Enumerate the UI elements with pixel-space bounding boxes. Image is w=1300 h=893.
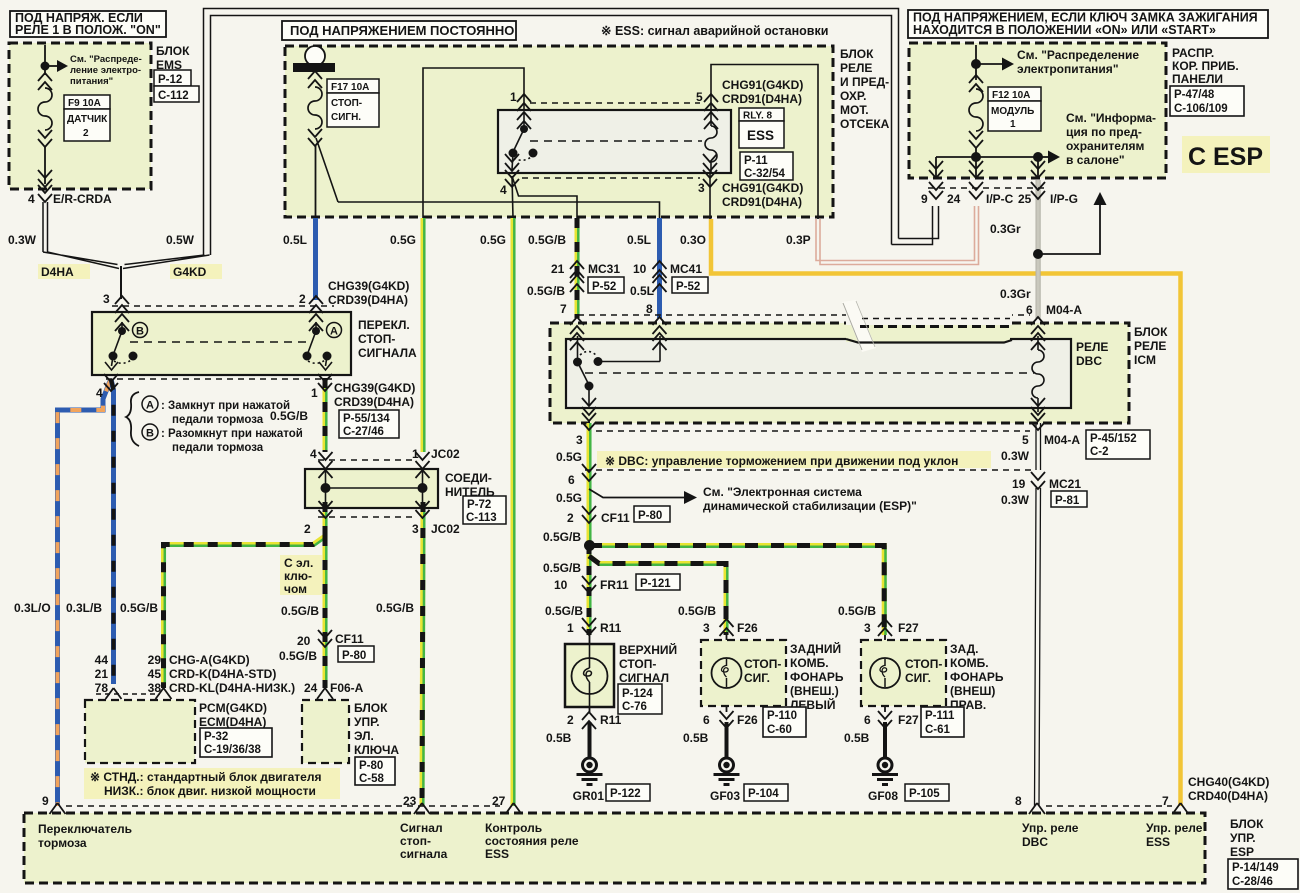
svg-text:JC02: JC02 [431,447,460,461]
svg-text:0.5G: 0.5G [480,233,506,247]
wire merge Y D4HA G4KD [43,252,210,299]
wire branch to fuse info arrow [1038,204,1100,254]
lamp U1 high mount stop box [565,642,677,707]
svg-text:0.3P: 0.3P [786,233,811,247]
svg-text:F26: F26 [737,621,758,635]
JC02 internal link [321,470,428,507]
wire 0.3W DBC pin5 via MC21 to ESP pin 8 [1035,423,1041,806]
svg-text:0.5G: 0.5G [390,233,416,247]
svg-text:2: 2 [299,292,306,306]
svg-text:0.3O: 0.3O [680,233,706,247]
svg-text:CRD-KL(D4HA-НИЗК.): CRD-KL(D4HA-НИЗК.) [169,681,295,695]
svg-text:БЛОК: БЛОК [354,701,388,715]
svg-text:23: 23 [403,794,417,808]
svg-text:R11: R11 [600,713,622,727]
svg-text:КОР. ПРИБ.: КОР. ПРИБ. [1172,59,1239,73]
smart key unit dashed box БЛОК УПР. ЭЛ. КЛЮЧА [302,700,399,763]
ESP pin 27 [492,794,522,814]
JC02 thin dashed connector line bottom [318,516,414,518]
ESP pin 23 [403,794,430,814]
relay name box RLY. 8 ESS [739,108,784,148]
lamp U1 bulb [572,644,608,707]
svg-text:0.5G/B: 0.5G/B [120,601,158,615]
wire 0.3O relay ESS pin3 to ESP pin 7 [711,219,1181,806]
svg-text:PCM(G4KD): PCM(G4KD) [199,701,267,715]
svg-text:МОТ.: МОТ. [840,103,869,117]
ESP pin 7 [1162,794,1189,814]
wire label 0.5G/B lamp3 [838,604,876,618]
svg-text:P-80: P-80 [638,510,662,522]
svg-text:CRD-K(D4HA-STD): CRD-K(D4HA-STD) [169,667,276,681]
svg-text:4: 4 [310,447,317,461]
svg-text:CHG-A(G4KD): CHG-A(G4KD) [169,653,250,667]
wire ESS pin1 to 0.5G column [423,68,524,218]
svg-text:D4HA: D4HA [41,265,74,279]
svg-text:6: 6 [864,713,871,727]
svg-text:4: 4 [28,192,35,206]
svg-text:M04-A: M04-A [1044,433,1080,447]
svg-text:БЛОК: БЛОК [1134,325,1168,339]
svg-text:C-28/46: C-28/46 [1232,876,1273,888]
wire 0.5G/B junction to high stop lamp R11 [589,545,590,635]
connector CF11 pin 20 [297,630,374,662]
wire label 0.5G/B above junction [543,530,581,544]
svg-text:И ПРЕД-: И ПРЕД- [840,75,889,89]
svg-text:Упр. реле: Упр. реле [1146,821,1203,835]
ref box P-14/149 C-28/46 [1228,859,1298,889]
svg-text:сигнала: сигнала [400,847,448,861]
svg-text:ICM: ICM [1134,353,1156,367]
svg-text:CF11: CF11 [601,511,630,525]
svg-text:C-19/36/38: C-19/36/38 [204,744,262,756]
PCM pin numbers 44 21 78 [95,653,109,695]
svg-text:19: 19 [1012,477,1026,491]
svg-text:СИГ.: СИГ. [905,671,931,685]
svg-text:F17 10A: F17 10A [331,82,369,93]
label CHG91 CRD91 bottom [722,181,803,209]
svg-text:20: 20 [297,634,311,648]
svg-text:Переключатель: Переключатель [38,822,132,836]
fuse F9 10A symbol [38,73,52,184]
bottom thin dashed connector line left [66,805,500,807]
svg-text:НИЗК.: блок двиг. низкой мощно: НИЗК.: блок двиг. низкой мощности [104,784,316,798]
JC02 pin 1 [412,447,460,478]
wire 0.5G/B JC02 pin2 down, branch to ECM and smart key block [164,502,327,688]
label CHG39 CRD39 pin2 [328,279,409,307]
DBC pin3 column label 0.5G [556,450,582,464]
wire labels row 0.5L 0.5G 0.5G 0.5GB 0.5L 0.3O 0.3P [283,233,811,247]
svg-text:электропитания": электропитания" [1017,62,1119,76]
node D4HA [38,264,90,279]
svg-text:РАСПР.: РАСПР. [1172,46,1214,60]
switch thin dashed connector line top [112,305,334,307]
scan tear artifact [842,300,1012,352]
svg-text:ПЕРЕКЛ.: ПЕРЕКЛ. [358,318,410,332]
svg-text:См. "Электронная система: См. "Электронная система [703,485,862,499]
wire label 0.5G/B MC31 [527,284,565,298]
EMS feed wire and junction dot [41,45,69,75]
bottom thin dashed connector line right [1046,805,1172,807]
switch pin 4 [96,374,118,400]
svg-text:F12 10A: F12 10A [992,90,1030,101]
svg-text:ЗАДНИЙ: ЗАДНИЙ [790,641,841,656]
svg-text:СТОП-: СТОП- [744,657,781,671]
svg-text:1: 1 [1010,119,1016,130]
wire label 0.3Gr lower [1000,287,1031,301]
ESP pin 9 [42,794,66,814]
svg-text:7: 7 [560,302,567,316]
svg-text:Контроль: Контроль [485,821,542,835]
svg-text:P-81: P-81 [1055,495,1080,507]
svg-text:P-47/48: P-47/48 [1174,89,1215,101]
svg-text:MC41: MC41 [670,262,702,276]
svg-text:1: 1 [567,621,574,635]
switch contact A [303,322,333,370]
JC02 pin 3 [412,501,460,536]
svg-text:питания": питания" [70,76,113,87]
svg-text:КЛЮЧА: КЛЮЧА [354,743,399,757]
svg-text:ESS: ESS [1146,835,1170,849]
svg-text:педали тормоза: педали тормоза [172,414,264,426]
svg-text:24: 24 [304,681,318,695]
svg-text:G4KD: G4KD [173,265,207,279]
svg-text:0.3Gr: 0.3Gr [1000,287,1031,301]
svg-text:P-105: P-105 [909,788,940,800]
svg-text:охранителям: охранителям [1066,139,1145,153]
svg-text:СИГНАЛ: СИГНАЛ [619,671,669,685]
svg-text:0.5L: 0.5L [630,284,654,298]
svg-text:0.5G/B: 0.5G/B [281,604,319,618]
connector MC21 [1012,472,1087,507]
svg-text:В: В [136,326,144,338]
svg-text:C-60: C-60 [767,724,792,736]
svg-text:CRD39(D4HA): CRD39(D4HA) [334,395,414,409]
wire label 0.3W DBC5 [1001,449,1030,463]
svg-text:клю-: клю- [284,569,312,583]
connector MC41 [633,261,708,293]
svg-text:29: 29 [148,653,162,667]
svg-text:См. "Распреде-: См. "Распреде- [70,54,142,65]
svg-text:3: 3 [864,621,871,635]
svg-text:РЕЛЕ: РЕЛЕ [1134,339,1166,353]
label Контроль состояния реле ESS [485,821,579,861]
switch pin 2 [299,292,323,331]
wire label 0.3W MC21 [1001,493,1030,507]
labels CHG-A CRD-K CRD-KL [169,653,295,695]
svg-text:(ВНЕШ.): (ВНЕШ.) [790,684,839,698]
svg-text:CRD39(D4HA): CRD39(D4HA) [328,293,408,307]
svg-text:3: 3 [576,433,583,447]
svg-text:СИГ.: СИГ. [744,671,770,685]
svg-text:P-14/149: P-14/149 [1232,862,1279,874]
svg-text:0.5G/B: 0.5G/B [527,284,565,298]
wire label 0.5B lamp1 [546,731,572,745]
caption box top-right ignition [908,10,1268,38]
svg-text:8: 8 [1015,794,1022,808]
svg-text:А: А [146,400,154,412]
svg-text:P-122: P-122 [610,788,641,800]
ESS relay pin 5 [696,90,718,129]
svg-text:0.5G/B: 0.5G/B [376,601,414,615]
label Переключатель тормоза [38,822,132,850]
DBC pin 3 [576,398,596,447]
ref box P-55/134 C-27/46 [339,410,399,438]
junction dot 0.3Gr [1033,249,1043,259]
caption box top-left "ПОД НАПРЯЖ. ЕСЛИ РЕЛЕ 1 В ПОЛОЖ. ON" [10,11,166,37]
svg-text:P-121: P-121 [640,578,671,590]
svg-text:6: 6 [568,473,575,487]
svg-text:СТОП-: СТОП- [619,657,656,671]
ICM relay block dashed box [550,323,1168,423]
svg-text:0.3L/B: 0.3L/B [66,601,102,615]
svg-text:P-111: P-111 [925,710,955,722]
ESS relay inner box [498,110,731,173]
caption box "ПОД НАПРЯЖЕНИЕМ ПОСТОЯННО" [282,21,516,40]
svg-text:ОХР.: ОХР. [840,89,866,103]
node G4KD [170,264,222,279]
ESP pin 8 [1015,794,1045,814]
DBC relay contact [573,336,660,406]
svg-text:3: 3 [103,292,110,306]
wire 0.5G/B JC02 pin3 to ESP pin 23 [422,502,424,806]
lamp left rear bulb [712,658,742,688]
svg-text:2: 2 [567,511,574,525]
svg-text:P-104: P-104 [748,788,779,800]
svg-text:С ESP: С ESP [1188,143,1263,171]
wire label 0.5G/B below junction [543,561,581,575]
svg-text:24: 24 [947,192,961,206]
switch contact B [105,322,138,370]
wire 0.5L fuse F17 to switch pin 2 [313,218,318,300]
PCM pin fork right [156,688,172,699]
ref box P-47/48 C-106/109 [1170,86,1244,116]
svg-text:P-11: P-11 [744,155,768,167]
svg-text:БЛОК: БЛОК [840,47,874,61]
svg-text:P-80: P-80 [342,650,366,662]
svg-text:P-80: P-80 [359,760,383,772]
svg-text:25: 25 [1018,192,1032,206]
svg-text:C-76: C-76 [622,701,647,713]
svg-text:3: 3 [698,181,705,195]
svg-text:0.3W: 0.3W [1001,493,1030,507]
note Электронная система ESP [703,485,917,513]
svg-text:состояния реле: состояния реле [485,834,579,848]
svg-text:0.5B: 0.5B [844,731,870,745]
svg-text:0.5G/B: 0.5G/B [838,604,876,618]
svg-text:БЛОК: БЛОК [1230,817,1264,831]
svg-text:CRD91(D4HA): CRD91(D4HA) [722,195,802,209]
svg-text:СИГНАЛА: СИГНАЛА [358,346,417,360]
svg-text:0.3W: 0.3W [8,233,37,247]
ESS relay coil [705,110,717,173]
svg-text:: Замкнут при нажатой: : Замкнут при нажатой [161,400,290,412]
svg-text:1: 1 [311,386,318,400]
wire lamp2 internal and 0.5B to ground GF03 [726,635,728,757]
DBC relay internal dashed line [585,372,1034,374]
connector FR11 pin 10 [554,574,680,593]
fuse F17 label box СТОП-СИГН [327,79,379,127]
svg-text:CHG91(G4KD): CHG91(G4KD) [722,78,803,92]
connector F26 pin 6 [703,711,758,728]
pin 6 mid connector [568,464,596,487]
ICM thin dashed connector line top [578,314,1030,316]
label БЛОК РЕЛЕ И ПРЕД-ОХР. МОТ. ОТСЕКА [840,47,890,131]
svg-text:10: 10 [554,578,568,592]
svg-text:УПР.: УПР. [1230,831,1256,845]
svg-text:в салоне": в салоне" [1066,153,1125,167]
wire 0.5L fuse F17 via MC41 to DBC pin 8 [657,218,662,318]
wire 0.5G relay ESS pin4 to ESP pin 27 [513,218,514,806]
svg-text:0.5G: 0.5G [556,491,582,505]
instrument panel junction dashed box top-right [909,43,1166,178]
wire label 0.5G/B pin1 [270,409,308,423]
svg-text:※ ESS: сигнал аварийной остано: ※ ESS: сигнал аварийной остановки [601,24,828,38]
svg-text:P-45/152: P-45/152 [1090,433,1137,445]
wire ESS pin5 to 0.3P column [711,65,818,220]
svg-text:RLY. 8: RLY. 8 [743,111,773,122]
note Распределение электропитания EMS [70,54,142,87]
wire 0.5G DBC pin3 to CF11 junction [589,423,590,545]
svg-text:РЕЛЕ: РЕЛЕ [840,61,872,75]
connector JC02 box СОЕДИНИТЕЛЬ [305,469,495,508]
fuse F17 10A symbol [308,71,338,218]
svg-text:чом: чом [284,582,307,596]
lamp left rear dashed box [701,640,786,706]
svg-text:C-113: C-113 [466,512,497,524]
svg-text:CHG40(G4KD): CHG40(G4KD) [1188,775,1269,789]
wire label 0.5G/B key column lower [279,649,317,663]
wire label 0.5B lamp2 [683,731,709,745]
ref box C-112 [154,86,199,102]
ref box P-11 C-32/54 [740,152,793,180]
svg-text:MC31: MC31 [588,262,620,276]
svg-text:E/R-CRDA: E/R-CRDA [53,192,112,206]
PCM thin dashed connector line [96,693,160,695]
connector F26 pin 3 [703,619,758,636]
svg-text:0.5G/B: 0.5G/B [279,649,317,663]
svg-text:0.5G/B: 0.5G/B [543,530,581,544]
I/P thin dashed connector line [928,187,1045,189]
svg-text:СТОП-: СТОП- [331,98,362,109]
svg-text:GF08: GF08 [868,789,898,803]
svg-text:МОДУЛЬ: МОДУЛЬ [991,106,1034,117]
svg-text:I/P-G: I/P-G [1050,192,1078,206]
svg-text:FR11: FR11 [600,578,629,592]
svg-text:ПАНЕЛИ: ПАНЕЛИ [1172,72,1223,86]
note brace A B pedal [126,392,303,454]
svg-text:ПОД НАПРЯЖЕНИЕМ ПОСТОЯННО: ПОД НАПРЯЖЕНИЕМ ПОСТОЯННО [290,23,514,38]
wire label 0.5G/B key column upper [281,604,319,618]
arrow up to fuse box [1094,192,1107,205]
svg-text:P-52: P-52 [592,281,616,293]
svg-text:F27: F27 [898,713,919,727]
ref box P-72 C-113 [463,496,506,524]
wire 0.5G/B switch pin1 to JC02 pin 4 [325,378,326,452]
svg-text:27: 27 [492,794,506,808]
svg-text:C-61: C-61 [925,724,951,736]
svg-text:ция по пред-: ция по пред- [1066,125,1142,139]
ref box P-80 C-58 [355,757,395,785]
svg-text:ЭЛ.: ЭЛ. [354,729,374,743]
svg-text:0.5G/B: 0.5G/B [543,561,581,575]
svg-text:F27: F27 [898,621,919,635]
switch pin 3 [103,292,129,331]
wire 0.3W from EMS pin 4 [43,202,48,252]
note Информация по предохранителям [1066,111,1156,167]
svg-text:педали тормоза: педали тормоза [172,442,264,454]
svg-text:См. "Информа-: См. "Информа- [1066,111,1156,125]
I/P internal distribution wire [936,151,1060,178]
ESS relay pin 3 [698,154,717,195]
wire label 0.5G/B lamp1 [545,604,583,618]
JC02 pin 4 [310,447,333,478]
label ЗАДНИЙ КОМБ ФОНАРЬ ЛЕВЫЙ [790,641,844,712]
svg-text:C-2: C-2 [1090,446,1109,458]
svg-text:5: 5 [1022,433,1029,447]
svg-text:F9 10A: F9 10A [68,98,101,109]
svg-text:78: 78 [95,681,109,695]
label CHG40 CRD40 [1188,775,1269,803]
ref box P-110 C-60 [763,707,806,737]
svg-text:тормоза: тормоза [38,836,87,850]
connector CF11 pin 2 [567,506,670,525]
svg-text:ВЕРХНИЙ: ВЕРХНИЙ [619,642,677,657]
svg-text:0.5L: 0.5L [283,233,307,247]
svg-text:1: 1 [510,90,517,104]
label ЗАД КОМБ ФОНАРЬ ПРАВ [950,642,1004,712]
connector F06-A pin 24 [304,681,364,699]
DBC pin 7 [560,302,584,350]
wire label 0.5G mid [556,491,582,505]
svg-text:I/P-C: I/P-C [986,192,1014,206]
ref box P-124 C-76 [618,684,662,714]
svg-text:КОМБ.: КОМБ. [790,656,829,670]
svg-text:4: 4 [500,183,507,197]
power symbol fuse F17 [293,46,335,72]
svg-text:РЕЛЕ 1 В ПОЛОЖ. "ON": РЕЛЕ 1 В ПОЛОЖ. "ON" [15,23,161,37]
svg-text:ФОНАРЬ: ФОНАРЬ [950,670,1004,684]
note С эл. ключом [280,555,322,596]
svg-text:C-32/54: C-32/54 [744,168,786,180]
svg-text:СТОП-: СТОП- [905,657,942,671]
wire 0.5W white frame route EMS to I/P pin 9 [204,9,939,256]
svg-text:C-112: C-112 [158,90,189,102]
svg-text:Упр. реле: Упр. реле [1022,821,1079,835]
label CHG39 CRD39 pin1 [334,381,415,409]
DBC relay inner box [566,339,1108,408]
label Упр. реле DBC [1022,821,1079,849]
EMS pin 4 connector [28,170,112,206]
svg-text:0.5W: 0.5W [166,233,195,247]
switch pin 1 [311,374,332,400]
svg-text:P-12: P-12 [158,74,182,86]
I/P pin 25 [1018,161,1078,206]
wire label 0.3Gr upper [990,222,1021,236]
note "ESS: сигнал аварийной остановки" [601,24,828,38]
svg-text:0.5B: 0.5B [546,731,572,745]
svg-text:3: 3 [703,621,710,635]
wire label 0.5G/B stop signal column [376,601,414,615]
svg-text:P-55/134: P-55/134 [343,413,390,425]
wire label 0.5W [166,233,195,247]
connector F27 pin 6 [864,711,919,728]
junction dot 0.5G/B [584,540,595,551]
wire 0.3Gr I/P pin 25 to DBC pin 6 [1036,180,1040,318]
svg-text:P-72: P-72 [467,499,491,511]
svg-text:C-106/109: C-106/109 [1174,103,1228,115]
wire 0.3P relay ESS pin5 to I/P pin 24 [816,206,979,265]
fuse F12 10A symbol [969,75,983,157]
